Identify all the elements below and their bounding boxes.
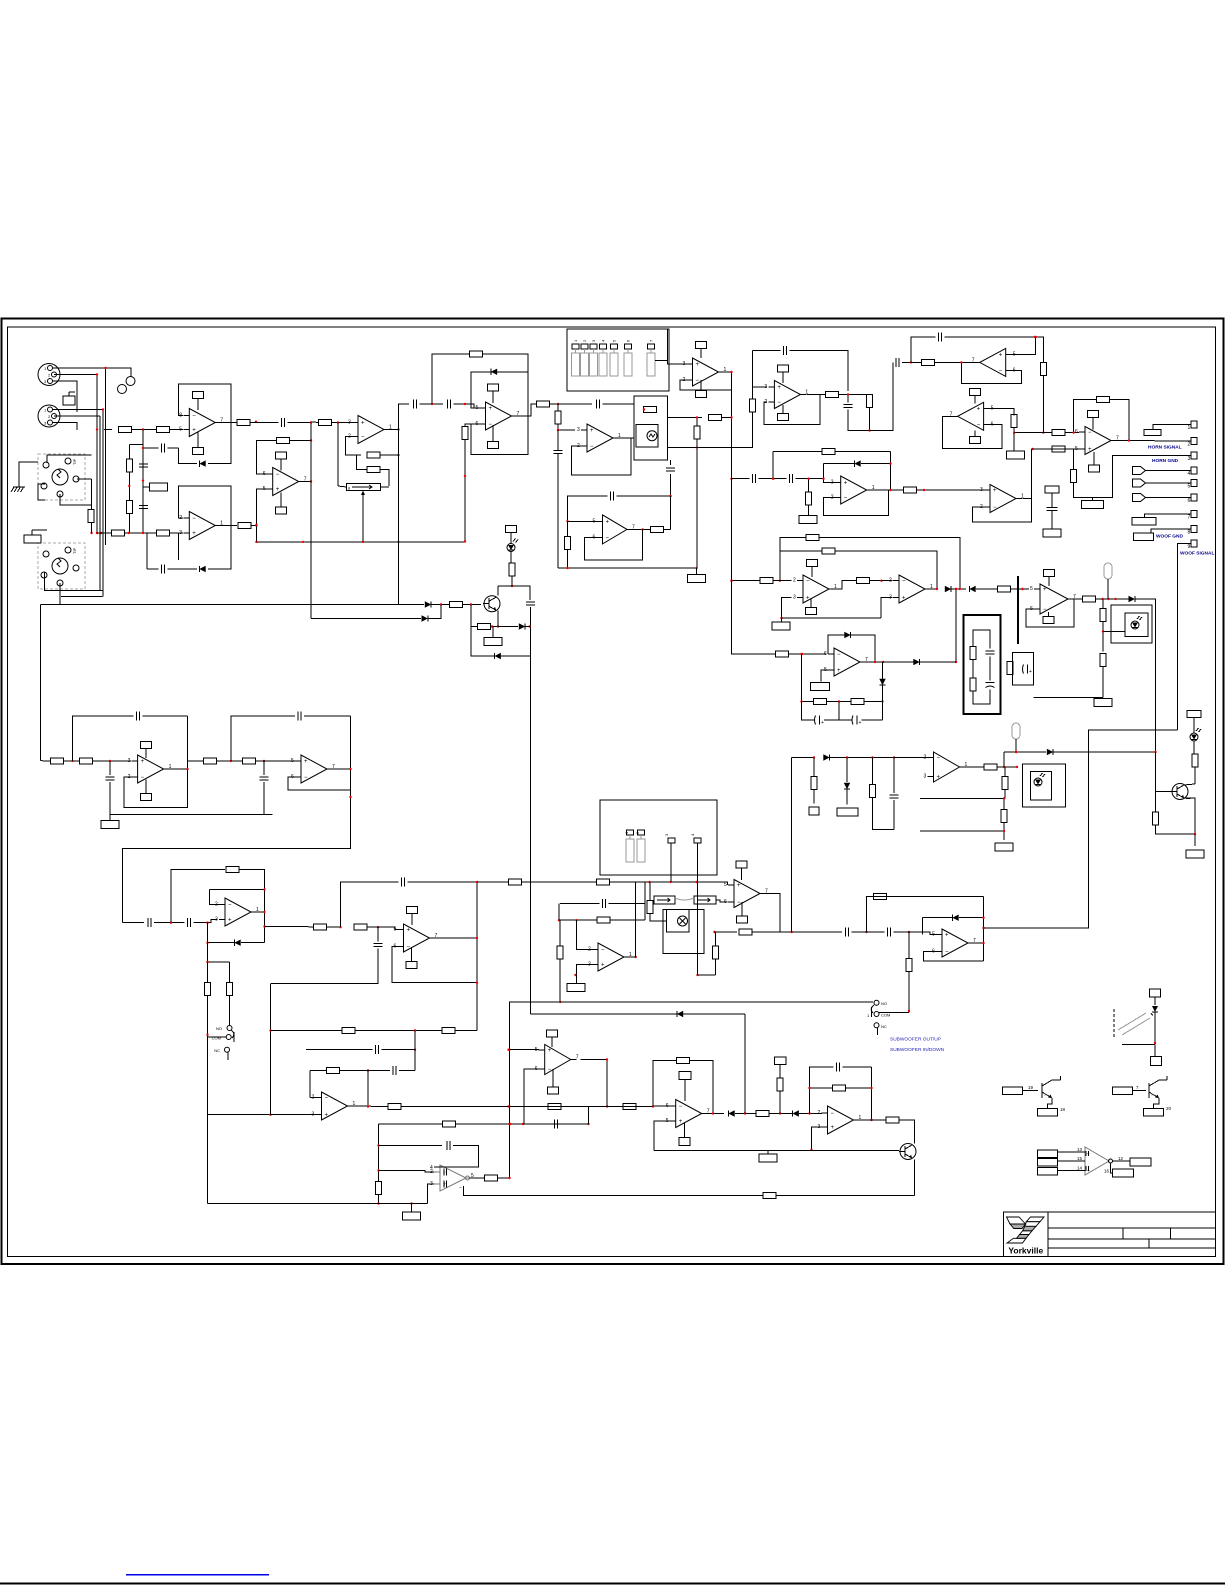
lamp box2: [663, 910, 704, 954]
wire c27 up: [377, 927, 379, 941]
wire u28 in: [607, 1106, 623, 1108]
node u25 net nodes: [367, 1029, 416, 1071]
ground flag pin8 flag: [1134, 533, 1154, 541]
diode D14: [823, 754, 829, 760]
svg-text:4: 4: [1188, 471, 1191, 477]
wire u1 out: [215, 422, 237, 424]
svg-text:3: 3: [1188, 456, 1191, 462]
svg-text:+: +: [737, 883, 741, 889]
wire xlr2 pin3: [52, 423, 77, 431]
wire c10 up: [847, 395, 849, 403]
wire bus line 4: [105, 368, 107, 545]
wire u2 loop: [179, 486, 232, 569]
resistor R57: [557, 946, 563, 959]
node x477 nodes: [476, 881, 478, 984]
wire pin5 wire: [1146, 482, 1192, 484]
wire r62 up: [908, 932, 910, 959]
ground flag FL13: [1186, 850, 1204, 858]
wire biq2 loop r: [304, 715, 351, 717]
switch SW1-5: [610, 344, 618, 376]
ground flag FL11: [837, 808, 858, 816]
wire u32 fb: [568, 496, 608, 521]
wire u22 out: [630, 956, 636, 958]
wire r23 l: [911, 361, 922, 363]
node x378 nodes: [377, 1144, 379, 1204]
svg-text:3: 3: [215, 917, 218, 923]
wire c41 dn: [670, 474, 672, 496]
wire gnd1 stub: [19, 462, 38, 479]
capacitor C41: [666, 468, 675, 471]
power flag U11 pwr bot: [1089, 465, 1100, 472]
jack connector J3: [38, 454, 85, 500]
resistor R23: [922, 359, 935, 365]
svg-text:−: −: [141, 775, 145, 781]
wire r81 dn: [779, 1091, 781, 1114]
wire pin9 wire: [1178, 544, 1192, 731]
wire u25 net1: [271, 1030, 343, 1032]
node u2 out node: [255, 524, 257, 526]
resistor R69: [1192, 754, 1198, 767]
wire u32 in5: [568, 520, 597, 522]
wire opto w3: [1122, 1044, 1155, 1046]
wire u17 rc row2b: [862, 719, 883, 721]
wire r31 rv: [890, 452, 892, 491]
node u11 out node: [1073, 431, 1131, 441]
node u12 in node: [923, 489, 925, 491]
wire fl9 stub: [576, 975, 578, 984]
op-amp U2: [179, 512, 223, 540]
power flag U6 pwr top: [696, 342, 707, 349]
wire r57 up: [559, 920, 561, 946]
wire lp dn: [208, 943, 230, 962]
power flag U28 pwr top: [679, 1072, 691, 1080]
node rail nodes: [813, 756, 895, 758]
svg-text:−: −: [228, 903, 232, 909]
capacitor C35: [555, 1120, 558, 1129]
wire u4 pwr stub: [492, 391, 494, 403]
wire u32 out2: [664, 528, 671, 530]
svg-text:+: +: [141, 759, 145, 765]
wire row882: [477, 881, 509, 883]
wire r20 up: [752, 351, 754, 399]
power flag pin1 flag: [1144, 430, 1161, 436]
switch SW1-6: [624, 344, 632, 376]
power flag U13 pwr bot: [141, 794, 152, 801]
wire c16 dn: [530, 607, 532, 656]
svg-text:−: −: [999, 368, 1003, 374]
U30 label 16: [1104, 1169, 1110, 1174]
wire u7 fb2: [764, 395, 820, 425]
capacitor C39: [852, 716, 862, 727]
svg-text:5: 5: [179, 427, 182, 433]
wire u17 rc row1b: [827, 701, 852, 703]
resistor R14: [462, 427, 468, 440]
op-amp U32: [593, 515, 636, 544]
wire d9 r: [952, 588, 967, 590]
wire q5 wire: [1133, 1090, 1147, 1092]
lamp LP1: [1104, 563, 1112, 579]
LED box inner 2: [1031, 772, 1052, 801]
wire row2 input: [97, 532, 112, 534]
wire q1 row626b: [498, 626, 518, 628]
node row1002 nodes: [559, 1001, 561, 1003]
wire r69 dn: [1194, 767, 1196, 784]
svg-text:−: −: [601, 948, 605, 954]
wire c12 right: [945, 337, 1044, 363]
capacitor C16: [526, 602, 535, 605]
wire r65 dn2: [1003, 831, 1005, 840]
Q5 label 20: [1166, 1106, 1172, 1111]
wire u1 pwr bot stub: [197, 432, 199, 448]
wire u13 out: [170, 768, 188, 770]
node lp dn node: [206, 961, 208, 963]
ground flag Q5 outbox: [1144, 1108, 1164, 1116]
wire u2 out2: [251, 525, 257, 527]
capacitor C19: [1023, 665, 1033, 676]
resistor R39: [970, 647, 976, 660]
opto dashed box: [1113, 1009, 1115, 1038]
wire u17 fb up: [828, 635, 844, 654]
wire u2 loop2: [178, 533, 180, 560]
wire u21 out: [436, 937, 478, 939]
wire u7 pwr stub: [782, 372, 784, 383]
capacitor C37: [282, 418, 285, 427]
svg-text:+: +: [192, 428, 196, 434]
wire ladder v2b: [128, 445, 130, 460]
node sw2 nodes: [696, 974, 698, 976]
svg-text:+: +: [276, 487, 280, 493]
potentiometer RV2: [654, 896, 675, 904]
node row752 node2: [1154, 751, 1156, 753]
op-amp U11: [1075, 427, 1119, 455]
wire c37 r: [288, 422, 312, 424]
svg-text:+: +: [837, 668, 841, 674]
node q2 node: [1194, 833, 1196, 835]
op-amp U21: [394, 924, 438, 952]
wire u29 fb lv: [809, 1067, 811, 1114]
wire row932d: [852, 931, 885, 933]
wire u32 out: [627, 528, 651, 530]
wire row2 to pin3: [170, 532, 184, 534]
svg-text:NO: NO: [881, 1001, 887, 1006]
svg-text:4: 4: [430, 1165, 433, 1171]
capacitor C28: [603, 899, 606, 908]
wire u31 pwr stub: [280, 459, 282, 471]
wire r62 dn: [908, 972, 910, 1013]
wire c1 left: [143, 447, 159, 449]
wire u15 fb2 r: [835, 551, 937, 589]
wire u26 out wire: [470, 1177, 485, 1179]
XLR connector J2: [38, 405, 60, 427]
wire sw1 drop: [668, 329, 687, 364]
cap box: [1013, 653, 1034, 686]
resistor R21: [826, 392, 839, 398]
wire u2 cap wire: [147, 568, 159, 570]
power flag U15 pwr bot: [806, 608, 817, 615]
resistor R44: [1100, 654, 1106, 667]
resistor R5: [88, 510, 94, 523]
wire lp fb2b: [258, 889, 265, 891]
Q4 pin label: [1028, 1085, 1034, 1090]
wire u7 fb cap: [753, 350, 781, 352]
wire r68 up: [1155, 792, 1157, 813]
wire u25 net3: [310, 1070, 327, 1072]
sw2 labels: [624, 831, 695, 836]
wire u23 pwr stub: [741, 868, 743, 880]
power flag U27 pwr bot: [548, 1087, 559, 1094]
wire biq in: [41, 760, 51, 762]
wire u29 fb rv: [871, 1067, 873, 1120]
diode D6: [422, 615, 428, 621]
svg-text:6: 6: [1075, 429, 1078, 435]
wire row932b: [753, 931, 792, 933]
wire fl15 stub: [411, 1204, 413, 1213]
wire x378 v2: [378, 1195, 380, 1204]
wire u11 in5b: [1033, 448, 1053, 450]
wire rail757b: [830, 757, 894, 759]
connector pin 8: [1188, 526, 1198, 536]
wire xlr1 pin2: [54, 374, 97, 376]
wire u32 fb r: [616, 495, 670, 497]
svg-text:+: +: [859, 720, 862, 726]
node u18 misc: [1021, 588, 1023, 590]
wire flag stub: [143, 486, 150, 488]
svg-text:TIP: TIP: [72, 458, 77, 465]
node row2 nodes: [128, 532, 145, 534]
svg-text:−: −: [737, 900, 741, 906]
node u31 nodes: [255, 439, 312, 543]
node bot trunk v node: [269, 1029, 271, 1031]
wire u30 w3: [1058, 1170, 1084, 1172]
resistor R60: [713, 946, 719, 959]
wire pot right: [381, 486, 389, 488]
resistor R63: [811, 777, 817, 790]
node bus junctions: [90, 367, 106, 534]
wire trunk A3: [463, 604, 482, 606]
wire u28 fb r: [690, 1061, 714, 1114]
wire u7 fb cap r: [790, 351, 849, 391]
wire u15 pwr stub2: [810, 599, 812, 608]
wire row432: [1014, 432, 1052, 434]
wire r36 r: [773, 580, 792, 582]
wire u24 out: [974, 942, 984, 944]
wire u22 in: [577, 920, 593, 949]
wire r16 up: [557, 404, 559, 411]
ground flag FL7: [1094, 699, 1112, 707]
resistor R17: [644, 407, 657, 413]
transistor Q1: [483, 596, 500, 612]
wire r29 v: [1073, 449, 1075, 470]
transistor Q5: [1149, 1076, 1167, 1098]
resistor R33: [509, 563, 515, 576]
power flag U21 pwr top: [407, 907, 418, 914]
title block row line 2: [1048, 1238, 1216, 1240]
svg-text:+: +: [304, 759, 308, 765]
resistor R48: [243, 758, 256, 764]
WOOF GND label: [1156, 534, 1183, 540]
wire u3 fb2: [380, 454, 399, 456]
wire u24 fb top: [867, 896, 984, 898]
meter box M1: [634, 396, 668, 460]
relay K1 com: [212, 1030, 234, 1042]
wire ladder v2c: [128, 472, 130, 501]
power flag U1 pwr top: [193, 392, 204, 399]
wire fl8 stub: [109, 815, 111, 821]
resistor R91: [806, 534, 819, 540]
wire u29 out: [860, 1119, 887, 1121]
wire bus line 2: [99, 416, 101, 591]
wire lamp wire3: [498, 576, 512, 586]
resistor R29: [1071, 470, 1077, 483]
opto arrows: [1118, 1013, 1150, 1035]
power flag U11 pwr top: [1088, 411, 1099, 418]
wire row430 right: [870, 362, 894, 430]
capacitor C36: [837, 1063, 840, 1072]
svg-text:+: +: [945, 933, 949, 939]
resistor R80: [756, 1111, 769, 1117]
wire u1 pwr top stub: [197, 399, 199, 411]
wire u23 pwr stub2: [741, 902, 743, 916]
wire r68 dn: [1156, 825, 1196, 834]
svg-text:3: 3: [924, 774, 927, 780]
node u27 out node: [606, 1058, 608, 1060]
wire r30 dn: [808, 505, 810, 516]
wire u25 out2: [401, 1106, 653, 1108]
wire u11 fb: [1074, 400, 1097, 433]
resistor R32: [904, 487, 917, 493]
node r80 node: [779, 1112, 781, 1114]
lamp LP2: [1012, 723, 1020, 739]
wire u16 in: [882, 580, 893, 582]
node lp nodes: [170, 922, 209, 924]
wire jack2 tip wire: [45, 573, 103, 591]
bottom page rule: [0, 1583, 1225, 1585]
wire r31 lv: [772, 452, 774, 479]
svg-text:−: −: [937, 756, 941, 762]
wire r19 up: [696, 418, 698, 427]
wire r32 r: [917, 489, 921, 491]
capacitor C10: [844, 405, 853, 408]
wire r67 up: [1004, 767, 1006, 777]
op-amp U28: [666, 1100, 710, 1128]
resistor R59: [739, 929, 752, 935]
svg-text:+: +: [844, 481, 848, 487]
svg-text:TIP: TIP: [72, 547, 77, 554]
op-amp U5: [577, 424, 621, 452]
node opto node: [1154, 1042, 1156, 1044]
lamp circle: [678, 916, 688, 926]
wire u22 fb link: [644, 882, 646, 904]
resistor R67: [1002, 777, 1008, 790]
diode D13: [952, 915, 958, 921]
wire u24 fb left v: [866, 897, 869, 933]
wire bot trunk2: [271, 1114, 311, 1116]
power flag U6 pwr bot: [696, 391, 707, 398]
wire d13 lv: [922, 918, 924, 935]
wire ladder v1: [142, 430, 144, 534]
wire lp1 stub: [1107, 579, 1109, 599]
wire u22 fb cap: [560, 903, 600, 905]
wire row1145: [379, 1145, 443, 1147]
wire r57 dn: [559, 960, 561, 1003]
wire r64 up: [872, 758, 874, 785]
wire c6 right: [454, 404, 475, 408]
resistor R24: [1040, 363, 1046, 376]
node row404: [431, 403, 466, 405]
U30 pin labels: [1077, 1147, 1083, 1171]
transistor Q4: [1042, 1076, 1061, 1098]
wire u25 net2b: [382, 1049, 416, 1051]
wire u2 cap right: [168, 568, 198, 570]
power flag U28 pwr bot: [679, 1138, 690, 1146]
capacitor C30: [888, 928, 891, 937]
LED box inner: [1125, 613, 1148, 637]
wire u27 in: [510, 1049, 539, 1051]
node d18 node: [808, 1112, 810, 1114]
wire c41 up: [670, 460, 672, 465]
wire c8 v: [557, 430, 559, 450]
op-amp U17: [824, 648, 868, 676]
ground flag FL6: [772, 622, 790, 630]
connector pin 2: [1188, 438, 1198, 448]
capacitor C7: [597, 400, 600, 409]
capacitor C6: [448, 400, 451, 409]
op-amp U15: [793, 575, 837, 603]
resistor R62: [906, 959, 912, 972]
wire u3 fb: [346, 437, 362, 456]
wire d4 lv: [824, 464, 835, 483]
wire biq link2: [217, 760, 244, 762]
resistor R20: [750, 399, 756, 412]
wire u3 input: [311, 421, 318, 424]
wire u17 out2: [883, 661, 913, 663]
WOOF SIGNAL label: [1180, 551, 1214, 557]
diode D21: [844, 632, 850, 638]
switch SW1-3: [590, 344, 598, 376]
wire u21 loop: [392, 947, 477, 983]
wire c13 top: [1051, 493, 1053, 508]
svg-text:+: +: [993, 488, 997, 494]
resistor R4: [126, 501, 132, 514]
svg-text:3: 3: [179, 530, 182, 536]
wire r60 up: [715, 932, 716, 946]
wire u3 up: [399, 404, 410, 430]
wire r90 up: [567, 521, 569, 536]
svg-text:−: −: [407, 945, 411, 951]
wire lp2 stub: [1015, 739, 1017, 752]
ground flag FL8: [101, 821, 119, 829]
wire u29 fb res r: [846, 1087, 872, 1089]
switch label 1: [573, 339, 578, 342]
wire c5-c6: [420, 403, 444, 405]
wire u17 rc v: [801, 654, 803, 702]
resistor R45: [51, 758, 64, 764]
wire trunk x745: [744, 1014, 746, 1114]
wire meter wire1: [612, 403, 634, 405]
power flag U23 pwr top: [736, 861, 747, 868]
lamp box: [667, 910, 690, 933]
outer border frame: [2, 319, 1224, 1265]
power flag U18 pwr bot: [1043, 617, 1054, 624]
wire pin3 wire: [1113, 455, 1192, 457]
wire u21 mid: [327, 926, 341, 928]
svg-text:−: −: [831, 1111, 835, 1117]
wire u21 pwr stub: [411, 914, 413, 926]
chassis ground GND1: [11, 479, 25, 492]
resistor R46: [80, 758, 93, 764]
wire u30 out wire2: [1111, 1163, 1113, 1173]
svg-text:15: 15: [1077, 1156, 1083, 1161]
